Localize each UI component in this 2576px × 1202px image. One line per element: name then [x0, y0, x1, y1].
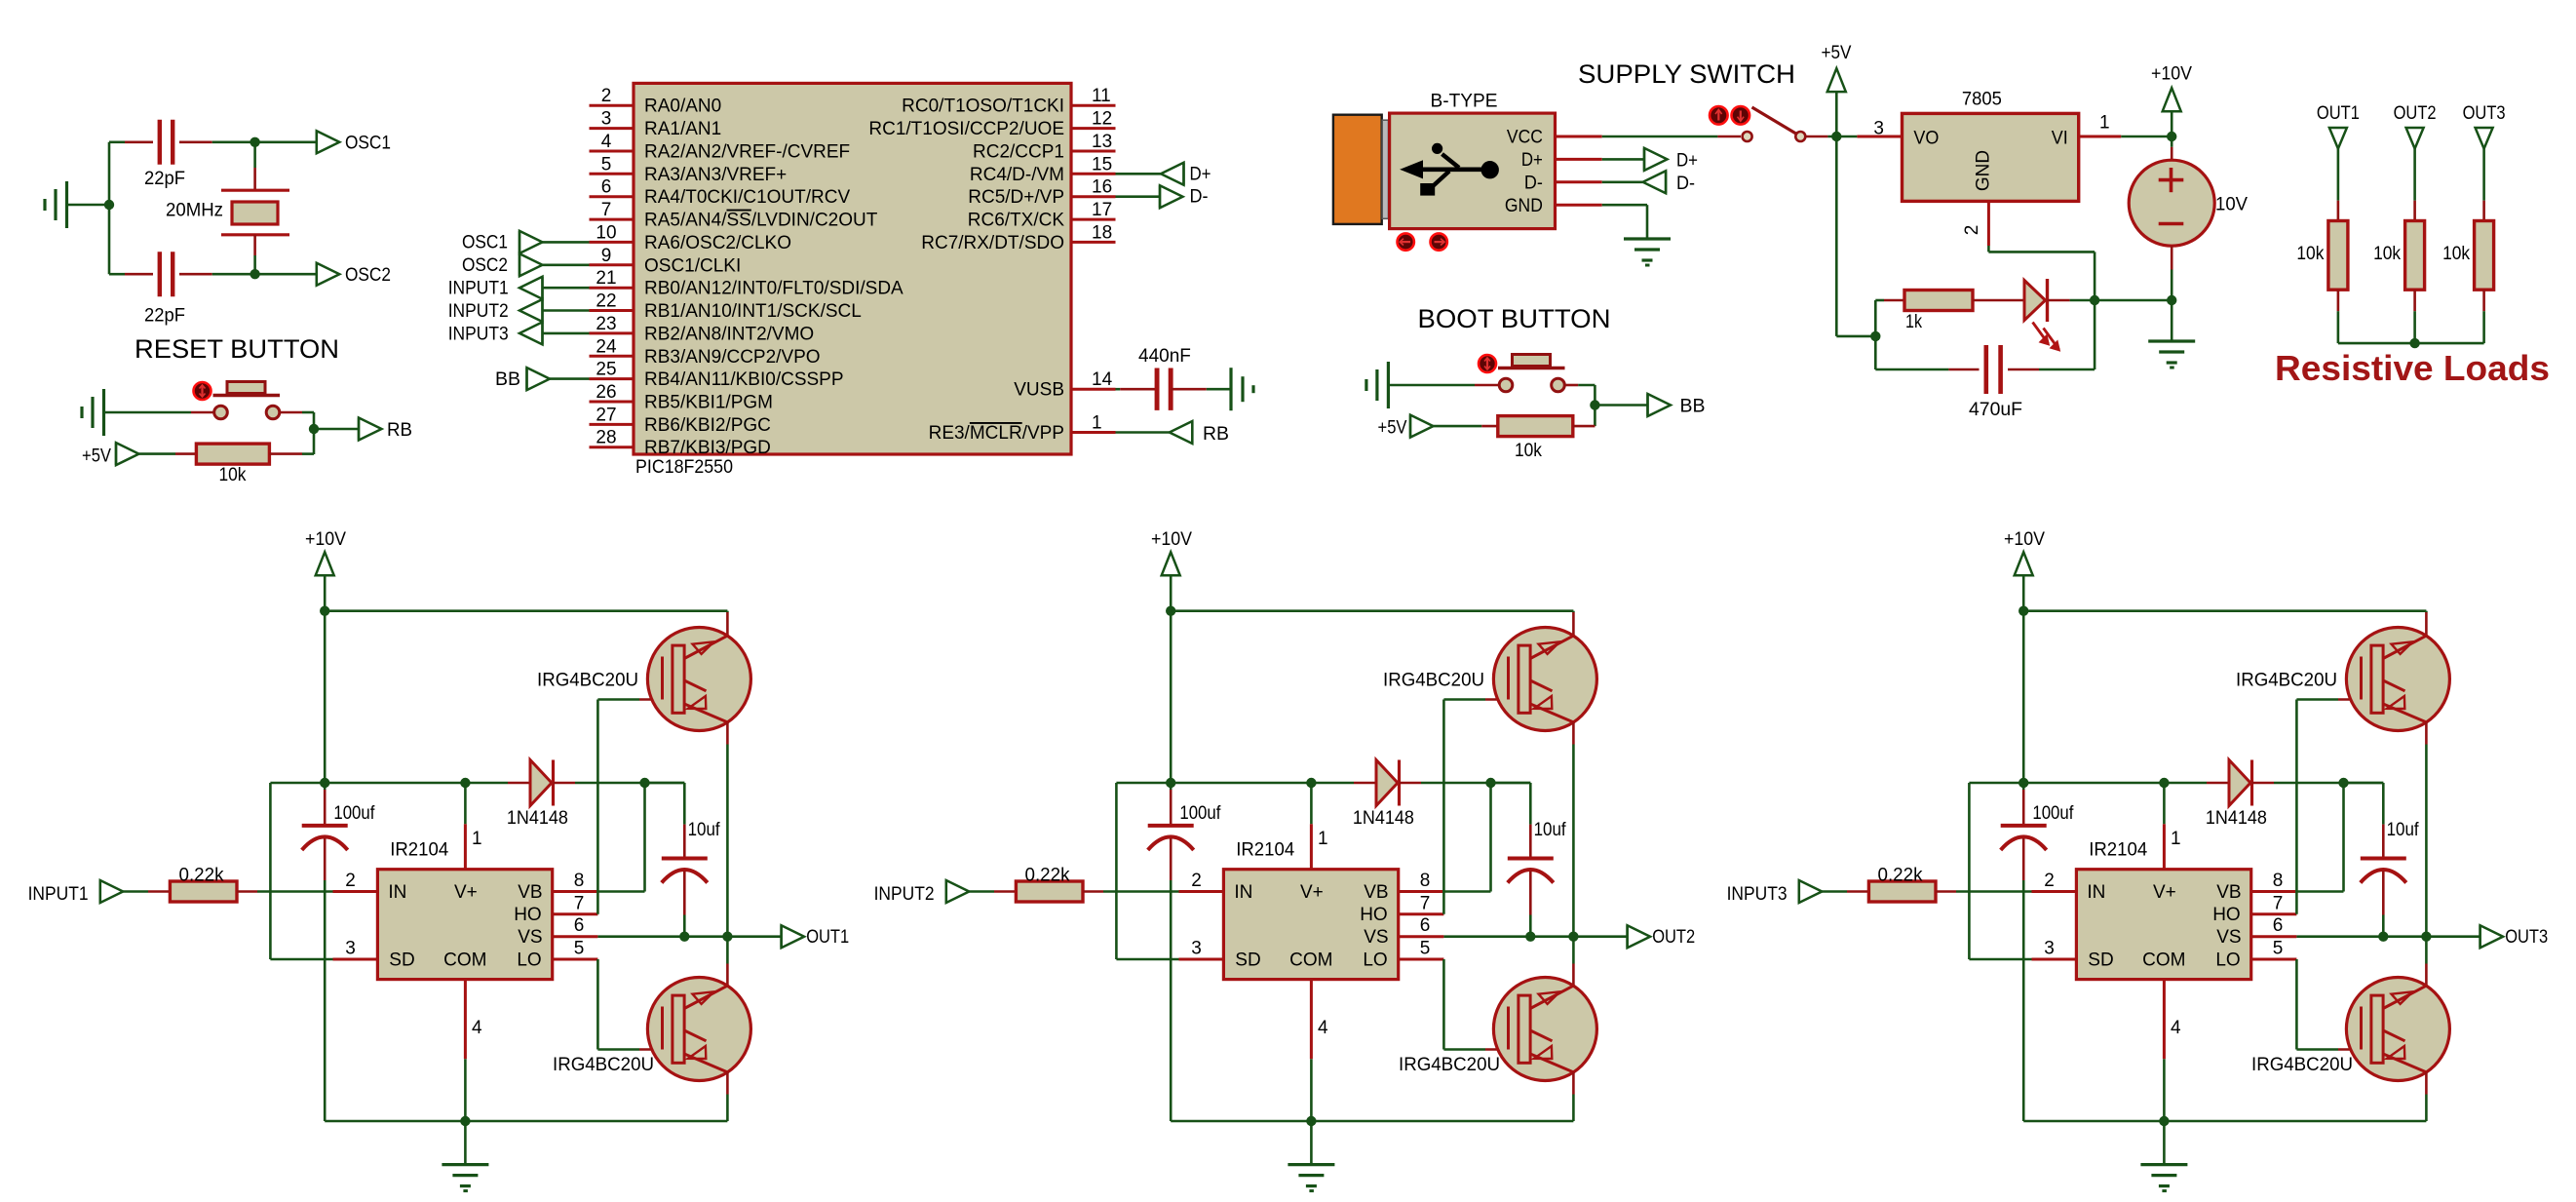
- label R3 10k: [1515, 441, 1542, 461]
- regulator U2 7805 body: [1903, 113, 2079, 201]
- wire to C1: [109, 141, 153, 144]
- ground: [2140, 1165, 2187, 1191]
- pin 4 COM: [2164, 980, 2181, 1121]
- svg-text:RC7/RX/DT/SDO: RC7/RX/DT/SDO: [921, 233, 1064, 253]
- svg-text:OSC1: OSC1: [462, 233, 508, 253]
- wire VCC to switch: [1602, 136, 1741, 138]
- label 20MHz: [166, 201, 223, 221]
- terminal D-: [1643, 171, 1695, 194]
- wire R2 to LED D2: [1973, 299, 2024, 302]
- wire input to resistor: [969, 890, 1016, 893]
- wire emitter lower to rail: [2425, 1072, 2428, 1121]
- label 100uf: [333, 803, 375, 824]
- wire input to resistor: [123, 890, 170, 893]
- capacitor 10uf: [662, 859, 708, 883]
- pin 6 VS: [2251, 915, 2297, 937]
- svg-text:26: 26: [596, 382, 616, 403]
- wire to RB: [314, 428, 359, 431]
- crystal X1 20MHz: [221, 190, 289, 235]
- pin 26 RB5/KBI1/PGM: [590, 382, 774, 413]
- label C1 22pF: [144, 169, 185, 189]
- pin 28 RB7/KBI3/PGD: [590, 428, 771, 459]
- node junction: [250, 137, 259, 147]
- svg-text:INPUT1: INPUT1: [28, 884, 89, 905]
- label B-TYPE: [1431, 92, 1498, 112]
- wire +10V vertical: [1170, 576, 1173, 790]
- pin 3 SD: [1179, 939, 1224, 960]
- wire C4 to node: [2008, 300, 2095, 369]
- wire R3 to junction: [1573, 425, 1596, 428]
- wire pin1 to RB: [1116, 431, 1170, 434]
- svg-text:+10V: +10V: [2151, 64, 2192, 85]
- node junction: [1590, 400, 1599, 409]
- wire collector upper: [2425, 611, 2428, 636]
- pin labels IR2104: [1234, 882, 1388, 971]
- svg-text:IRG4BC20U: IRG4BC20U: [553, 1055, 654, 1075]
- svg-text:RA3/AN3/VREF+: RA3/AN3/VREF+: [644, 165, 787, 185]
- terminal +10V block 2: [1151, 529, 1192, 575]
- svg-text:SD: SD: [1235, 950, 1260, 970]
- svg-text:7: 7: [601, 200, 612, 220]
- node junction VS 10uf: [1525, 932, 1535, 942]
- resistor 10k load OUT2: [2405, 221, 2425, 291]
- USB logo: [1401, 143, 1499, 196]
- svg-text:IR2104: IR2104: [1236, 840, 1294, 861]
- terminal OUT3: [2480, 925, 2549, 948]
- wire V+ rail left: [270, 782, 508, 785]
- node junction: [250, 269, 259, 279]
- svg-text:6: 6: [1420, 915, 1431, 936]
- gate driver IR2104 body: [377, 870, 552, 980]
- wire left rail vertical: [1969, 783, 2031, 959]
- pin D+ stub: [1556, 158, 1602, 161]
- node junction VB: [2338, 778, 2348, 788]
- wire collector lower: [1572, 937, 1575, 986]
- svg-text:GND: GND: [1505, 196, 1543, 216]
- terminal +5V: [82, 443, 139, 466]
- wire VB node down to pin 8: [2295, 783, 2343, 892]
- terminal D+ to pin15: [1116, 163, 1211, 185]
- node junction top rail: [2019, 606, 2028, 616]
- pin 4 COM: [1311, 980, 1328, 1121]
- svg-text:OUT1: OUT1: [2317, 103, 2360, 124]
- pin 21 RB0/AN12/INT0/FLT0/SDI/SDA: [590, 268, 904, 299]
- svg-text:D-: D-: [1190, 187, 1209, 208]
- wire to 7805 VO: [1857, 136, 1902, 138]
- switch SW1 up button: [1710, 106, 1728, 125]
- pin GND label rotated: [1974, 150, 1994, 191]
- svg-text:D+: D+: [1190, 164, 1211, 184]
- transistor IGBT IRG4BC20U Q2: [647, 978, 750, 1081]
- pin 5 LO: [1399, 939, 1444, 960]
- wire VB node down to pin 8: [1442, 783, 1490, 892]
- svg-text:SD: SD: [2088, 950, 2113, 970]
- svg-text:6: 6: [2273, 915, 2284, 936]
- wire GND to ground: [1602, 205, 1647, 239]
- label IR2104: [2089, 840, 2147, 861]
- pin 16 RC5/D+/VP: [968, 177, 1115, 209]
- pin 3 RA1/AN1: [590, 109, 722, 140]
- label 1N4148: [507, 808, 568, 829]
- svg-text:VS: VS: [1364, 927, 1388, 948]
- node junction ground rail: [1306, 1116, 1316, 1126]
- svg-text:SD: SD: [389, 950, 414, 970]
- svg-text:0.22k: 0.22k: [1878, 866, 1923, 886]
- svg-text:RC6/TX/CK: RC6/TX/CK: [968, 211, 1065, 231]
- label C3 440nF: [1138, 346, 1191, 367]
- terminal +5V: [1378, 415, 1434, 439]
- node junction V+ rail: [2019, 778, 2028, 788]
- svg-text:COM: COM: [443, 950, 486, 970]
- svg-text:IRG4BC20U: IRG4BC20U: [1383, 671, 1484, 691]
- wire +10V vertical: [324, 576, 327, 790]
- wire V+ rail left: [1116, 782, 1354, 785]
- svg-text:27: 27: [596, 405, 616, 425]
- svg-text:D-: D-: [1676, 174, 1695, 194]
- svg-text:7: 7: [1420, 893, 1431, 913]
- title Resistive Loads: [2275, 348, 2550, 388]
- svg-text:RE3/MCLR/VPP: RE3/MCLR/VPP: [929, 423, 1064, 444]
- svg-text:2: 2: [345, 871, 356, 891]
- terminal +10V block 1: [305, 529, 346, 575]
- svg-text:13: 13: [1092, 132, 1112, 152]
- wire bottom rail: [325, 1120, 727, 1123]
- svg-text:LO: LO: [517, 950, 541, 970]
- USB mount hole right: [1431, 233, 1447, 250]
- wire D- to terminal: [1602, 181, 1643, 184]
- USB mount hole left: [1398, 233, 1414, 250]
- label IRG4BC20U Q6: [2251, 1055, 2353, 1075]
- pin 3 SD: [333, 939, 378, 960]
- wire crystal bottom pin: [253, 235, 256, 274]
- capacitor C1 22pF: [160, 120, 173, 165]
- svg-text:IR2104: IR2104: [390, 840, 448, 861]
- wire LO to lower gate: [597, 959, 663, 1050]
- terminal BB to pin25: [495, 368, 590, 390]
- pin VO label: [1913, 129, 1939, 149]
- label 1N4148: [2206, 808, 2267, 829]
- resistor 10k load OUT3: [2475, 221, 2494, 291]
- terminal OSC1 to pin10: [462, 231, 590, 253]
- wire resistor to rail: [2337, 290, 2340, 343]
- diode D 1N4148: [2229, 760, 2252, 806]
- node junction VS emitter: [2421, 932, 2431, 942]
- svg-text:BB: BB: [1680, 397, 1706, 417]
- capacitor 100uf: [302, 790, 348, 1121]
- wire HO to upper gate: [1443, 700, 1509, 914]
- wire to ground: [1310, 1121, 1313, 1165]
- wire collector upper: [726, 611, 729, 636]
- svg-text:21: 21: [596, 268, 616, 289]
- svg-text:440nF: 440nF: [1138, 346, 1191, 367]
- svg-text:5: 5: [574, 939, 585, 959]
- pin 6 VS: [553, 915, 598, 937]
- label IRG4BC20U Q3: [1383, 671, 1484, 691]
- wire 10uf bottom: [683, 872, 686, 937]
- pin 7 HO: [1399, 893, 1444, 914]
- pin 2 stub GND: [1962, 201, 1988, 246]
- node junction VS 10uf: [679, 932, 689, 942]
- pin 22 RB1/AN10/INT1/SCK/SCL: [590, 291, 862, 323]
- wire bottom rail: [1171, 1120, 1573, 1123]
- wire C3 to ground: [1171, 388, 1231, 391]
- svg-text:VCC: VCC: [1507, 128, 1543, 148]
- wire diode to VB node: [554, 782, 685, 785]
- node junction ground rail: [460, 1116, 470, 1126]
- pin VCC stub: [1556, 136, 1602, 138]
- wire to ground: [464, 1121, 467, 1165]
- node junction loop: [1870, 331, 1880, 341]
- svg-text:16: 16: [1092, 177, 1112, 198]
- svg-text:BOOT BUTTON: BOOT BUTTON: [1418, 304, 1611, 333]
- pin D+ label: [1521, 150, 1543, 171]
- svg-text:OSC2: OSC2: [345, 265, 391, 286]
- svg-text:6: 6: [574, 915, 585, 936]
- capacitor C4 470uF: [1986, 345, 2001, 394]
- terminal OUT2: [1628, 925, 1696, 948]
- svg-text:RC4/D-/VM: RC4/D-/VM: [970, 165, 1064, 185]
- label 10k: [2296, 244, 2324, 264]
- wire diode to VB node: [1400, 782, 1531, 785]
- diode D 1N4148: [530, 760, 554, 806]
- label 10uf: [1534, 820, 1567, 840]
- pin 4 COM: [465, 980, 482, 1121]
- pin 3 SD: [2032, 939, 2077, 960]
- svg-text:14: 14: [1092, 369, 1113, 390]
- transistor IGBT IRG4BC20U Q6: [2346, 978, 2449, 1081]
- svg-text:3: 3: [601, 109, 612, 130]
- svg-text:25: 25: [596, 360, 616, 380]
- wire emitter lower to rail: [1572, 1072, 1575, 1121]
- svg-text:RA6/OSC2/CLKO: RA6/OSC2/CLKO: [644, 233, 791, 253]
- node junction V+ rail: [320, 778, 329, 788]
- transistor IGBT IRG4BC20U Q5: [2346, 628, 2449, 731]
- title SUPPLY SWITCH: [1578, 59, 1795, 89]
- ground: [1231, 368, 1253, 410]
- svg-text:10k: 10k: [2442, 244, 2470, 264]
- svg-text:1N4148: 1N4148: [1353, 808, 1414, 829]
- svg-text:4: 4: [601, 132, 612, 152]
- terminal OSC2: [317, 263, 340, 286]
- wire button to junction: [280, 412, 314, 454]
- capacitor 10uf: [1508, 859, 1554, 883]
- svg-text:RC1/T1OSI/CCP2/UOE: RC1/T1OSI/CCP2/UOE: [868, 119, 1064, 139]
- wire top rail: [2023, 609, 2426, 612]
- transistor IGBT IRG4BC20U Q1: [647, 628, 750, 731]
- USB connector J1 B-TYPE plug: [1333, 115, 1382, 224]
- svg-text:RB3/AN9/CCP2/VPO: RB3/AN9/CCP2/VPO: [644, 347, 821, 368]
- capacitor 10uf: [2361, 859, 2406, 883]
- pin 9 OSC1/CLKI: [590, 246, 742, 277]
- ground: [45, 181, 67, 228]
- wire rail to diode: [508, 782, 530, 785]
- label C4 470uF: [1969, 400, 2022, 420]
- wire 10uf bottom: [1529, 872, 1532, 937]
- node junction +5V: [1831, 132, 1841, 141]
- terminal INPUT2 to pin22: [448, 299, 590, 322]
- pin 2 IN: [1191, 871, 1202, 891]
- svg-text:0.22k: 0.22k: [179, 866, 224, 886]
- node junction VB: [1485, 778, 1495, 788]
- svg-text:SUPPLY SWITCH: SUPPLY SWITCH: [1578, 59, 1795, 89]
- terminal OUT2: [2394, 103, 2437, 149]
- svg-text:IRG4BC20U: IRG4BC20U: [2236, 671, 2337, 691]
- wire 10uf top: [1491, 783, 1531, 859]
- pin 8 VB: [553, 871, 597, 892]
- wire diode to VB node: [2252, 782, 2384, 785]
- label IRG4BC20U Q4: [1399, 1055, 1500, 1075]
- pin 5 RA3/AN3/VREF+: [590, 154, 788, 185]
- svg-text:V+: V+: [2153, 882, 2176, 903]
- terminal RB: [359, 418, 382, 441]
- wire gnd to button: [1388, 384, 1499, 387]
- wire input to resistor: [1822, 890, 1868, 893]
- svg-text:OUT2: OUT2: [2394, 103, 2437, 124]
- svg-text:4: 4: [472, 1018, 482, 1038]
- svg-text:10k: 10k: [2296, 244, 2324, 264]
- svg-text:B-TYPE: B-TYPE: [1431, 92, 1498, 112]
- svg-text:INPUT1: INPUT1: [448, 279, 509, 299]
- node junction +10V: [2167, 132, 2176, 141]
- svg-text:2: 2: [2044, 871, 2055, 891]
- svg-text:HO: HO: [2212, 905, 2241, 925]
- ground: [1366, 362, 1389, 408]
- svg-text:RB7/KBI3/PGD: RB7/KBI3/PGD: [644, 438, 771, 458]
- wire load rail: [2338, 342, 2484, 345]
- svg-text:INPUT2: INPUT2: [874, 884, 935, 905]
- svg-text:+10V: +10V: [305, 529, 346, 550]
- svg-text:3: 3: [2044, 939, 2055, 959]
- svg-text:VB: VB: [1364, 882, 1388, 903]
- svg-text:18: 18: [1092, 222, 1112, 243]
- pin 2 RA0/AN0: [590, 86, 722, 117]
- node junction top rail: [320, 606, 329, 616]
- resistor 0.22k: [1016, 881, 1083, 902]
- node junction: [2090, 295, 2099, 305]
- terminal BB: [1648, 394, 1706, 417]
- svg-text:OSC1: OSC1: [345, 134, 391, 154]
- pin 11 RC0/T1OSO/T1CKI: [902, 86, 1115, 117]
- label 10uf: [688, 820, 721, 840]
- pin 6 VS: [1399, 915, 1444, 937]
- resistor R2 1k: [1904, 291, 1973, 311]
- resistor R3 10k: [1498, 416, 1573, 437]
- pushbutton BOOT: [1479, 355, 1565, 392]
- wire to C2: [109, 273, 153, 276]
- pin 5 LO: [553, 939, 598, 960]
- svg-text:4: 4: [1318, 1018, 1328, 1038]
- USB connector body: [1390, 113, 1556, 229]
- svg-text:RA1/AN1: RA1/AN1: [644, 119, 721, 139]
- svg-text:OSC2: OSC2: [462, 255, 508, 276]
- svg-text:10uf: 10uf: [2387, 820, 2420, 840]
- ground: [442, 1165, 488, 1191]
- wire LO to lower gate: [2296, 959, 2362, 1050]
- terminal OSC2 to pin9: [462, 253, 590, 276]
- svg-text:23: 23: [596, 314, 616, 334]
- label 0.22k: [1025, 866, 1070, 886]
- svg-text:5: 5: [601, 154, 612, 174]
- wire top rail: [325, 609, 727, 612]
- svg-text:5: 5: [1420, 939, 1431, 959]
- svg-text:LO: LO: [1363, 950, 1387, 970]
- node junction VS 10uf: [2378, 932, 2388, 942]
- wire VS row: [1443, 935, 1627, 938]
- wire resistor to IN pin: [1083, 890, 1223, 893]
- gate driver IR2104 body: [1223, 870, 1398, 980]
- pin 2 IN: [2044, 871, 2055, 891]
- pin 25 RB4/AN11/KBI0/CSSPP: [590, 360, 844, 391]
- svg-text:28: 28: [596, 428, 616, 448]
- svg-text:RB: RB: [387, 420, 412, 441]
- label 10k: [2442, 244, 2470, 264]
- wire +10V vertical: [2022, 576, 2025, 790]
- wire node to ground: [2171, 300, 2173, 341]
- svg-text:COM: COM: [2142, 950, 2185, 970]
- pin labels IR2104: [2087, 882, 2241, 971]
- capacitor C3 440nF: [1157, 368, 1171, 410]
- pin 12 RC1/T1OSI/CCP2/UOE: [868, 109, 1115, 140]
- switch SW1 contacts and lever: [1743, 107, 1806, 141]
- wire to BB terminal: [1595, 404, 1647, 407]
- svg-text:10uf: 10uf: [688, 820, 721, 840]
- pin 14 VUSB: [1014, 369, 1115, 401]
- terminal INPUT3 to pin23: [448, 322, 590, 344]
- svg-text:1N4148: 1N4148: [2206, 808, 2267, 829]
- svg-text:+10V: +10V: [1151, 529, 1192, 550]
- terminal +10V: [2151, 64, 2192, 112]
- svg-text:VB: VB: [518, 882, 542, 903]
- svg-text:IRG4BC20U: IRG4BC20U: [537, 671, 638, 691]
- wire bottom rail: [2023, 1120, 2426, 1123]
- wire LED to node: [2048, 299, 2095, 302]
- svg-text:COM: COM: [1289, 950, 1332, 970]
- label RB: [387, 420, 412, 441]
- svg-text:24: 24: [596, 336, 617, 357]
- pin 17 RC6/TX/CK: [968, 200, 1116, 231]
- svg-text:Resistive Loads: Resistive Loads: [2275, 348, 2550, 388]
- pin 1 V+: [1306, 778, 1327, 870]
- svg-text:+5V: +5V: [1378, 418, 1407, 439]
- svg-text:8: 8: [1420, 871, 1431, 891]
- label 0.22k: [179, 866, 224, 886]
- wire +5V corner to loop: [1836, 335, 1875, 338]
- label IR2104: [390, 840, 448, 861]
- label OSC2: [345, 265, 391, 286]
- svg-text:2: 2: [601, 86, 612, 106]
- wire left rail vertical: [270, 783, 332, 959]
- svg-text:10k: 10k: [1515, 441, 1542, 461]
- terminal OUT1: [2317, 103, 2360, 149]
- wire collector lower: [2425, 937, 2428, 986]
- wire V+ rail left: [1969, 782, 2207, 785]
- wire battery to gnd node: [2171, 246, 2173, 300]
- node junction: [2409, 338, 2419, 348]
- pin 23 RB2/AN8/INT2/VMO: [590, 314, 815, 345]
- wire VB node down to pin 8: [596, 783, 644, 892]
- svg-text:10uf: 10uf: [1534, 820, 1567, 840]
- label PIC18F2550: [635, 457, 733, 478]
- switch SW1 down button: [1732, 106, 1750, 125]
- pin 1 stub VI: [2079, 113, 2122, 137]
- svg-text:100uf: 100uf: [2032, 803, 2074, 824]
- transistor IGBT IRG4BC20U Q3: [1493, 628, 1596, 731]
- node junction ground rail: [2159, 1116, 2169, 1126]
- pin 7 RA5/AN4/SS/LVDIN/C2OUT: [590, 200, 878, 231]
- svg-text:22pF: 22pF: [144, 169, 185, 189]
- wire HO to upper gate: [2296, 700, 2362, 914]
- label IR2104: [1236, 840, 1294, 861]
